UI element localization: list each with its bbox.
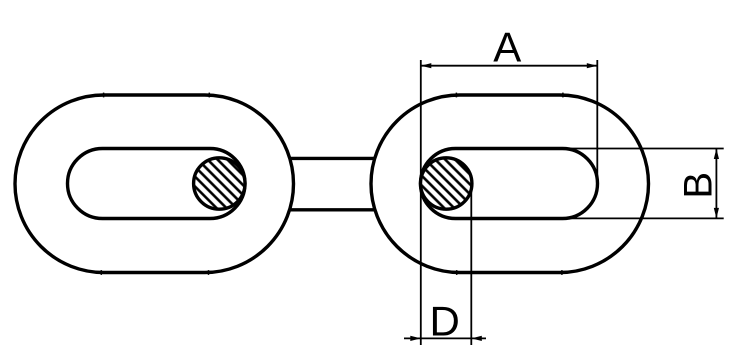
- dimension A left arrowhead: [421, 63, 432, 68]
- left link tangent tick top-left: [103, 93, 105, 98]
- dimension D right extension line: [470, 183, 472, 345]
- dimension B line: [715, 149, 717, 219]
- svg-text:B: B: [677, 172, 721, 199]
- right chain link outer contour: [371, 95, 649, 273]
- right link tangent tick bottom-right: [561, 270, 563, 275]
- dimension B bottom extension line: [558, 217, 724, 219]
- dimension B top extension line: [558, 148, 724, 150]
- svg-text:A: A: [493, 23, 521, 70]
- dimension B top arrowhead: [714, 149, 719, 160]
- right wire cross-section circle (hatched): [421, 158, 472, 209]
- left wire cross-section circle (hatched): [194, 158, 245, 209]
- dimension B bottom arrowhead: [714, 208, 719, 219]
- svg-text:D: D: [430, 298, 460, 345]
- dimension A/D shared left extension line: [420, 60, 422, 345]
- middle link (edge view) bottom wire: [219, 208, 446, 211]
- right link tangent tick top-left: [455, 93, 457, 98]
- right link tangent tick bottom-left: [456, 270, 458, 275]
- left link tangent tick top-right: [208, 93, 210, 98]
- left link tangent tick bottom-right: [208, 270, 210, 275]
- left link tangent tick bottom-left: [100, 270, 102, 275]
- dimension D line: [404, 337, 486, 339]
- right chain link inner contour: [421, 149, 598, 219]
- dimension A right extension line: [596, 60, 598, 183]
- dimension D right arrowhead (outside, pointing left): [471, 336, 482, 341]
- dimension D left arrowhead (outside, pointing right): [410, 336, 421, 341]
- left chain link inner contour: [68, 149, 246, 219]
- middle link (edge view) top wire: [219, 157, 446, 160]
- dimension A line: [421, 65, 598, 67]
- dimension A right arrowhead: [587, 63, 598, 68]
- right link tangent tick top-right: [562, 93, 564, 98]
- left chain link outer contour: [15, 95, 294, 273]
